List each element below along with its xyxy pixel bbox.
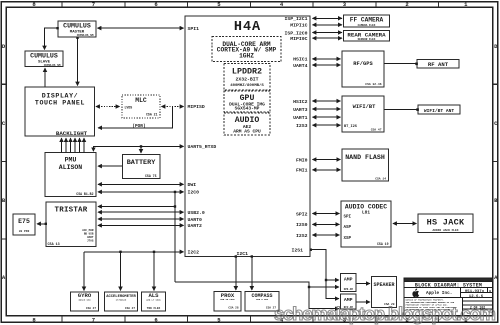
svg-text:CSA 27: CSA 27 xyxy=(86,307,96,310)
amp 1 xyxy=(341,274,357,292)
svg-text:RF/GPS: RF/GPS xyxy=(353,61,373,67)
wire I2S1 branch to amp1 xyxy=(326,279,339,281)
junction at RF ANT xyxy=(415,63,418,66)
svg-text:UART2: UART2 xyxy=(188,223,203,229)
column numbers bottom xyxy=(32,316,468,323)
wire FMI1 to NAND xyxy=(313,169,341,171)
svg-text:CSA 21: CSA 21 xyxy=(146,113,158,117)
junction E75 tristar xyxy=(45,223,47,225)
svg-text:AMB LT SENS: AMB LT SENS xyxy=(146,299,161,302)
svg-text:UART1: UART1 xyxy=(293,115,308,121)
svg-text:ARM AS CPU: ARM AS CPU xyxy=(233,128,261,134)
frame tick marks bottom xyxy=(62,316,439,323)
svg-text:BLOCK DIAGRAM: SYSTEM: BLOCK DIAGRAM: SYSTEM xyxy=(415,283,482,289)
svg-text:ALISON: ALISON xyxy=(59,164,83,171)
wire MIPISD MLC to H4A dotted xyxy=(162,106,184,108)
svg-text:I2S1: I2S1 xyxy=(291,248,303,254)
svg-text:USB2.0: USB2.0 xyxy=(188,210,205,216)
frame tick marks top xyxy=(62,2,439,8)
frame tick marks left xyxy=(1,84,6,239)
CPU block text xyxy=(217,41,277,60)
svg-text:MLC: MLC xyxy=(135,97,147,104)
wire ISP_I2C0 to rear camera xyxy=(313,32,342,34)
svg-text:HSIC2: HSIC2 xyxy=(293,99,308,105)
svg-text:MIPISD: MIPISD xyxy=(188,104,205,110)
wire branch down to amp2 lower xyxy=(309,287,339,309)
junction I2C0 branch xyxy=(174,191,176,193)
svg-text:CSA 27: CSA 27 xyxy=(125,307,135,310)
display / touch panel xyxy=(25,87,95,136)
RF antenna xyxy=(417,60,459,69)
svg-text:7: 7 xyxy=(92,316,95,323)
svg-text:30 PIN: 30 PIN xyxy=(19,230,30,233)
svg-text:FMI1: FMI1 xyxy=(296,168,308,174)
svg-text:B: B xyxy=(2,197,6,204)
FF camera xyxy=(344,15,390,27)
svg-text:H4A: H4A xyxy=(234,20,261,35)
junction at WIFI ANT xyxy=(416,108,419,111)
svg-text:AUDIO JACK FLEX: AUDIO JACK FLEX xyxy=(432,229,458,232)
LPDDR2 dashed block xyxy=(224,64,270,91)
svg-text:SPI2: SPI2 xyxy=(296,211,308,217)
svg-text:TRISTAR: TRISTAR xyxy=(55,206,88,214)
wire DWI H4A to PMU xyxy=(98,183,184,185)
NAND flash xyxy=(342,149,389,181)
svg-text:I2C2: I2C2 xyxy=(188,250,200,256)
svg-text:CSA 28: CSA 28 xyxy=(228,307,238,310)
gyro xyxy=(71,292,99,311)
amp 2 xyxy=(341,294,357,309)
svg-text:EVT SHEET: EVT SHEET xyxy=(480,279,493,282)
prox sensor xyxy=(214,292,241,312)
svg-text:7: 7 xyxy=(92,1,95,8)
wire E75 to tristar xyxy=(37,223,46,225)
svg-text:CUMULUS: CUMULUS xyxy=(63,23,91,30)
svg-text:CUMULUS_SM: CUMULUS_SM xyxy=(44,64,61,67)
wire amp2 to speaker xyxy=(357,301,370,303)
svg-text:ISP_I2C0: ISP_I2C0 xyxy=(284,30,307,36)
svg-text:JTAG: JTAG xyxy=(87,240,94,243)
svg-text:CSA 47: CSA 47 xyxy=(371,129,382,132)
wire ISP_I2C1 to FF camera xyxy=(313,17,342,19)
rear camera xyxy=(344,31,390,41)
wire SPI2 to codec xyxy=(313,213,340,215)
svg-text:MIPI1C: MIPI1C xyxy=(290,23,307,29)
wire LVDS display to MLC dotted xyxy=(96,106,120,108)
svg-text:E75: E75 xyxy=(18,218,30,225)
svg-text:ST/BOSCH: ST/BOSCH xyxy=(116,299,127,302)
AUDIO AE2 dashed block xyxy=(224,113,270,135)
wire amp1 to speaker xyxy=(357,283,370,285)
svg-text:BT_I2S: BT_I2S xyxy=(344,125,358,129)
RF/GPS module xyxy=(342,51,384,87)
svg-text:UART5_RTXD: UART5_RTXD xyxy=(188,144,217,150)
GPU dashed block xyxy=(224,91,270,112)
wire cumulus master to slave xyxy=(45,28,58,49)
svg-text:TOUCH PANEL: TOUCH PANEL xyxy=(35,99,85,106)
junction I2C0 tristar branch xyxy=(174,205,176,207)
backlight wires PMU to display xyxy=(61,138,63,152)
svg-text:DWI: DWI xyxy=(188,182,197,188)
svg-text:UART0: UART0 xyxy=(188,217,203,223)
wire MIPI0C to rear camera xyxy=(313,37,342,39)
row letters right xyxy=(494,43,498,281)
svg-text:SPEAKER: SPEAKER xyxy=(373,282,394,288)
cumulus master xyxy=(58,21,96,37)
wire UART0 tristar to H4A xyxy=(98,218,184,220)
svg-text:051-937x: 051-937x xyxy=(465,290,485,294)
wire I2C0 H4A to PMU xyxy=(98,191,184,193)
proprietary notice text xyxy=(406,299,458,312)
wire I2C1 drop to compass xyxy=(251,257,253,290)
svg-text:WIFI/BT ANT: WIFI/BT ANT xyxy=(424,108,455,114)
svg-text:ISP_I2C1: ISP_I2C1 xyxy=(284,16,307,22)
svg-text:SGX543-MP: SGX543-MP xyxy=(235,106,260,112)
svg-text:I2S2: I2S2 xyxy=(296,233,308,239)
wire HSIC2 to WIFI/BT xyxy=(313,100,341,102)
wire branch to battery top xyxy=(140,146,142,153)
wire UART4 to RF/GPS xyxy=(313,64,341,66)
MLC dotted block xyxy=(122,95,160,118)
svg-text:FF CAMERA: FF CAMERA xyxy=(350,16,384,23)
svg-text:BACKLIGHT: BACKLIGHT xyxy=(56,130,88,137)
svg-text:I2C0: I2C0 xyxy=(188,190,200,196)
junction amp branch xyxy=(308,286,310,288)
svg-text:UART4: UART4 xyxy=(293,63,308,69)
svg-text:SPI1: SPI1 xyxy=(188,26,200,32)
WIFI/BT module xyxy=(342,96,384,132)
svg-text:B: B xyxy=(489,290,491,293)
svg-text:LVDS: LVDS xyxy=(125,106,133,110)
svg-text:AUDIO: AUDIO xyxy=(235,116,260,125)
wire drop to ALS xyxy=(153,252,155,291)
WIFI/BT antenna xyxy=(418,105,460,114)
svg-text:NAND FLASH: NAND FLASH xyxy=(345,154,385,161)
svg-text:L81: L81 xyxy=(362,211,370,216)
wire SPI1 H4A to cumulus master xyxy=(98,27,184,29)
svg-text:BOSCH SMG: BOSCH SMG xyxy=(79,299,92,302)
junction I2S1 amp1 branch xyxy=(325,279,327,281)
svg-text:HS JACK: HS JACK xyxy=(427,218,465,228)
wire HSIC1 to RF/GPS xyxy=(313,58,341,60)
svg-text:SPK.AM: SPK.AM xyxy=(344,288,354,291)
wire drop to gyro xyxy=(83,252,85,291)
wire I2S1 H4A down xyxy=(311,250,339,299)
title block header bar xyxy=(405,278,493,281)
svg-text:SENSOR FLEX: SENSOR FLEX xyxy=(358,38,376,41)
wire drop to accelerometer xyxy=(120,252,122,291)
svg-text:MIPI0C: MIPI0C xyxy=(290,36,307,42)
svg-text:I2S0: I2S0 xyxy=(296,222,308,228)
svg-text:CSA 13: CSA 13 xyxy=(48,243,60,247)
apple logo xyxy=(412,289,419,297)
svg-text:I2C1: I2C1 xyxy=(237,251,249,257)
svg-text:CSA 75: CSA 75 xyxy=(145,174,157,178)
wire USB2.0 tristar to H4A xyxy=(98,211,184,213)
wire POR tap from MIPISD line to display xyxy=(98,107,172,128)
svg-text:TDK FLEX: TDK FLEX xyxy=(147,307,161,310)
svg-text:C: C xyxy=(2,120,6,127)
wire UART1 to WIFI/BT xyxy=(313,116,341,118)
svg-text:CSA 32-46: CSA 32-46 xyxy=(365,83,381,86)
svg-text:D: D xyxy=(2,43,6,50)
svg-text:LPDDR2: LPDDR2 xyxy=(232,67,262,77)
svg-text:CSA 14: CSA 14 xyxy=(375,177,386,180)
svg-text:400MHZ/800MB/S: 400MHZ/800MB/S xyxy=(230,83,264,88)
row letters left xyxy=(2,43,6,281)
speaker xyxy=(372,277,397,308)
wire I2C0 branch vertical xyxy=(174,192,176,282)
svg-text:AMP: AMP xyxy=(344,277,353,283)
svg-text:FMI0: FMI0 xyxy=(296,157,308,163)
CPU dashed block xyxy=(212,37,281,62)
svg-text:AMB H MAG: AMB H MAG xyxy=(256,298,269,301)
audio codec L81 xyxy=(341,201,391,247)
svg-text:12.6.6: 12.6.6 xyxy=(469,295,484,299)
wire cumulus master to display xyxy=(77,38,79,86)
wire codec to HS jack xyxy=(393,223,416,225)
wire I2C1 drop to prox xyxy=(235,257,237,290)
cumulus slave xyxy=(25,51,63,67)
wire UART2 tristar to H4A xyxy=(98,224,184,226)
battery xyxy=(122,154,159,178)
wire I2S0 to codec xyxy=(313,223,340,225)
svg-text:CUMULUS: CUMULUS xyxy=(30,53,58,60)
svg-text:SPI: SPI xyxy=(344,215,352,219)
svg-text:2X32-BIT: 2X32-BIT xyxy=(235,76,258,82)
junction I2C2 accelerometer xyxy=(119,251,121,253)
svg-text:WIFI/BT: WIFI/BT xyxy=(353,104,376,110)
wire UART5_RTXD H4A to PMU xyxy=(93,146,183,151)
svg-text:1GHZ: 1GHZ xyxy=(239,53,254,60)
junction I2C1 prox xyxy=(235,255,237,257)
wire display to cumulus slave xyxy=(44,68,46,86)
wire I2S2 to codec xyxy=(313,234,340,236)
svg-text:CAMERA FLEX: CAMERA FLEX xyxy=(358,24,376,27)
svg-text:PMU: PMU xyxy=(65,157,77,164)
title block xyxy=(404,278,493,316)
wire sensor bus run to amps xyxy=(175,282,339,287)
junction I2C1 compass xyxy=(251,255,253,257)
HS jack xyxy=(418,214,473,233)
compass xyxy=(245,292,279,312)
svg-text:HSIC1: HSIC1 xyxy=(293,57,308,63)
wire FMI0 to NAND xyxy=(313,159,341,161)
svg-text:BATTERY: BATTERY xyxy=(127,159,156,167)
svg-text:ASP: ASP xyxy=(344,226,352,230)
junction at cumulus master bottom xyxy=(76,37,78,39)
svg-text:I2S3: I2S3 xyxy=(296,123,308,129)
wire I2C2 sensor bus xyxy=(84,251,184,253)
wire I2C0 branch to tristar xyxy=(98,206,175,208)
frame tick marks right xyxy=(493,84,498,239)
accelerometer xyxy=(105,292,138,311)
E75 connector xyxy=(13,214,35,235)
wire MIPI1C to FF camera xyxy=(313,24,342,26)
wire WIFI/BT to antenna xyxy=(385,109,418,111)
svg-text:CSA B1-B2: CSA B1-B2 xyxy=(76,192,93,196)
column numbers top xyxy=(32,1,468,8)
junction I2C2 ALS xyxy=(153,251,155,253)
junction at cumulus master left xyxy=(56,27,58,29)
junction UART5 battery branch xyxy=(140,145,142,147)
wire RF/GPS to RF ANT xyxy=(385,63,417,65)
watermark schemalaptop.blogspot.com xyxy=(274,303,495,325)
wire I2S3 to WIFI/BT xyxy=(313,124,341,126)
svg-text:CSA 19: CSA 19 xyxy=(377,242,389,246)
H4A SoC U1 xyxy=(185,16,310,257)
svg-text:RF ANT: RF ANT xyxy=(428,61,449,68)
H4A right pin labels xyxy=(284,16,307,253)
junction I2S1 at H4A edge xyxy=(310,249,312,251)
svg-text:UART3: UART3 xyxy=(293,107,308,113)
PMU alison xyxy=(45,153,96,197)
tristar xyxy=(46,202,96,247)
svg-text:CUMULUS_SM: CUMULUS_SM xyxy=(77,34,94,37)
svg-text:Apple Inc.: Apple Inc. xyxy=(426,291,452,296)
wire battery to PMU xyxy=(98,165,122,167)
svg-text:APL PROPRIETARY: APL PROPRIETARY xyxy=(406,279,426,282)
ALS sensor xyxy=(142,292,166,311)
H4A left pin labels xyxy=(188,26,249,257)
svg-text:A: A xyxy=(2,274,6,281)
wire UART3 to WIFI/BT xyxy=(313,108,341,110)
svg-text:AMB IR PROX: AMB IR PROX xyxy=(220,298,235,301)
svg-text:XSP: XSP xyxy=(344,237,352,241)
